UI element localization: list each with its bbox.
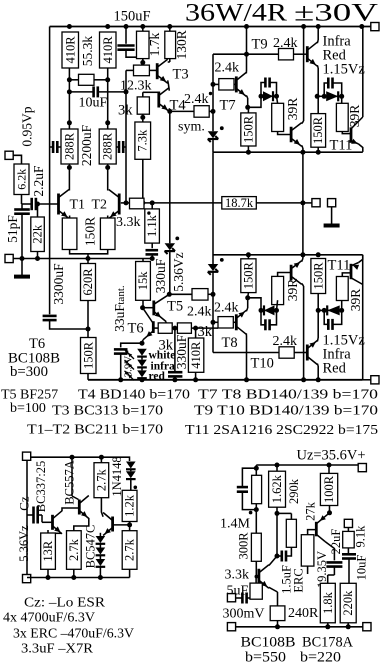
wire Cz bottom rail — [27, 577, 130, 579]
dot 3.9V rail — [118, 377, 123, 382]
wire 220k bottom — [347, 623, 349, 627]
transistor T6 emitter — [142, 331, 153, 343]
capacitor 1.5uF — [282, 551, 286, 562]
resistor 288R right — [99, 129, 116, 164]
label T11 upper — [330, 138, 353, 154]
dot BC178A emitter — [327, 510, 332, 515]
svg-text:3.3uF –X7R: 3.3uF –X7R — [21, 642, 94, 657]
wire bottom to terminal — [363, 379, 371, 381]
terminal 300mV — [227, 594, 235, 602]
svg-text:3x ERC –470uF/6.3V: 3x ERC –470uF/6.3V — [13, 627, 134, 642]
wire cap288R — [116, 146, 126, 148]
svg-text:Uz=35.6V+: Uz=35.6V+ — [297, 448, 366, 464]
wire 2.4k T9 right — [294, 53, 307, 55]
label T7 — [220, 98, 236, 114]
wire 6.2k to node — [21, 195, 23, 205]
svg-text:b=220: b=220 — [300, 650, 341, 662]
wire ground rail y258 — [9, 258, 152, 260]
wire BC178A emitter top — [329, 506, 331, 513]
marker dot zener upper — [220, 126, 224, 130]
resistor 410R right — [100, 32, 117, 68]
capacitor Cz — [34, 507, 38, 524]
capacitor 3300uF — [43, 316, 57, 320]
wire T7 emitter — [246, 95, 247, 107]
wire col108 down — [107, 80, 109, 123]
svg-text:36W/4R: 36W/4R — [185, 0, 287, 27]
dot rail2 150R T9 — [316, 150, 321, 155]
label 2.4k T7 — [215, 61, 240, 76]
wire 39R LR bottom — [341, 301, 343, 311]
dot 10uF left — [67, 89, 72, 94]
wire 150R T9 top — [317, 96, 319, 113]
dot 1.5uF node — [275, 554, 280, 559]
wire 51pF down — [21, 204, 23, 259]
resistor 3k b — [177, 323, 191, 333]
label b=220 — [300, 650, 341, 662]
wire d-ab — [130, 469, 132, 471]
wire 3300uF bottom — [50, 320, 88, 329]
dot network UL left — [259, 94, 264, 99]
transistor T10 — [307, 341, 317, 365]
label 5.36Vz cz — [17, 525, 31, 562]
transistor BC108B reg — [259, 565, 269, 589]
resistor 13R — [41, 533, 56, 569]
terminal Cz top — [23, 452, 31, 460]
dot T8 emitter node — [245, 295, 250, 300]
marker dot zener lower — [220, 258, 224, 262]
capacitor under 1.1k — [146, 250, 159, 254]
svg-text:6.2k: 6.2k — [15, 169, 29, 190]
wire bottom rail — [88, 379, 363, 381]
wire right column down — [362, 255, 364, 380]
label 290k — [287, 478, 301, 504]
wire zener to T5 node — [169, 252, 171, 295]
label BC178A — [302, 635, 354, 651]
label white — [149, 349, 176, 361]
led white — [125, 349, 147, 359]
dot IR LR mid — [322, 308, 327, 313]
resistor 2.7k c1 — [94, 463, 109, 498]
wire output column — [302, 152, 304, 255]
dot 410R1-55.3k — [67, 77, 72, 82]
terminal reg bottom left — [227, 623, 235, 631]
wire led2-3 — [141, 367, 143, 370]
wire 27k bottom — [307, 566, 309, 574]
dot rail3 150RT10 — [316, 252, 321, 257]
wire 150R to bottom rail — [87, 374, 89, 380]
wire speaker gnd — [331, 207, 333, 224]
wire colB down — [276, 514, 278, 557]
svg-text:5.36Vz: 5.36Vz — [17, 525, 31, 562]
wire colA bottom — [255, 504, 257, 534]
label 10uF — [79, 96, 108, 111]
wire 9.1k to 10uF — [347, 548, 349, 554]
svg-text:Cz: –Lo ESR: Cz: –Lo ESR — [24, 596, 106, 611]
svg-text:7.3k: 7.3k — [136, 129, 150, 152]
wire 1.1k top stub — [151, 203, 153, 209]
wire 2.7kc2 bottom — [73, 569, 75, 577]
terminal -30V bottom right — [371, 376, 379, 384]
resistor 7.3k — [135, 122, 151, 159]
label 9.1k — [354, 525, 368, 548]
wire 1.5uF left stub — [277, 555, 282, 557]
wire 39R UR to base — [342, 132, 351, 134]
transistor T5 emitter — [154, 312, 166, 324]
dot T6 emitter node — [140, 341, 145, 346]
svg-text:300R: 300R — [237, 532, 251, 560]
svg-text:ERC: ERC — [292, 568, 306, 592]
transistor T5 collector — [154, 294, 170, 304]
dot 410R rail — [193, 377, 198, 382]
svg-text:150R: 150R — [241, 261, 255, 289]
dot rail-410R1 — [67, 24, 72, 29]
dot rail OUL — [301, 24, 306, 29]
wire 130R top — [169, 27, 171, 32]
label 330uF mid — [153, 258, 168, 293]
svg-text:10uF: 10uF — [79, 96, 108, 111]
svg-text:b=550: b=550 — [245, 650, 286, 662]
capacitor 10uF reg — [342, 554, 356, 558]
resistor 2.7k c2 — [67, 531, 82, 570]
label T1 — [70, 198, 86, 213]
wire Cz cap stubs — [27, 515, 53, 522]
wire 150R T7 bottom — [247, 146, 249, 152]
dot Cz top 557 — [70, 455, 75, 460]
dot 1.7k-12.3k — [140, 60, 145, 65]
wire 18.7k right — [256, 202, 303, 204]
terminal input ground — [5, 254, 13, 262]
wire 130R bottom — [169, 59, 171, 62]
label 300mV — [223, 607, 265, 622]
terminal +30V top right — [371, 23, 379, 31]
wire 410R2 bottom — [107, 68, 109, 80]
wire 150R T8 bottom — [247, 293, 250, 298]
wire rail2 — [213, 151, 363, 153]
label BC337:25 — [34, 461, 48, 512]
svg-text:4x 4700uF/6.3V: 4x 4700uF/6.3V — [3, 611, 95, 626]
wire 2.4k T10 right — [294, 352, 306, 354]
svg-text:288R: 288R — [101, 132, 115, 160]
transistor BC337 — [53, 511, 63, 534]
label 0.95Vp — [20, 106, 35, 146]
wire 55.3k left — [69, 79, 78, 81]
wire T6 base — [153, 327, 158, 329]
resistor 150R T10 — [311, 259, 326, 294]
resistor 22k — [31, 217, 45, 252]
svg-text:13R: 13R — [41, 540, 55, 562]
note X7R — [21, 642, 94, 657]
label BC108B annot — [8, 351, 60, 367]
label BC108B — [241, 635, 296, 651]
transistor T11 lower — [351, 263, 363, 285]
svg-text:T6: T6 — [128, 321, 144, 337]
wire 10uF down — [348, 559, 350, 584]
dot rail T11u — [359, 24, 364, 29]
wire T5 base — [143, 307, 153, 309]
capacitor colA — [237, 468, 256, 509]
dot rail4 T10 — [316, 377, 321, 382]
dot T9row-col247 — [244, 52, 249, 57]
wire 15k bottom — [142, 300, 144, 307]
wire 330uF stem — [174, 328, 176, 380]
wire 150R T10 bottom — [317, 294, 319, 311]
label 10uF reg — [355, 555, 369, 581]
svg-text:2.7k: 2.7k — [94, 469, 108, 492]
dot 3k mid node — [172, 326, 177, 331]
resistor 55.3k — [79, 74, 95, 85]
dot rail2 150R T7 — [246, 150, 251, 155]
dot T5 collector node — [167, 292, 172, 297]
resistor 410R out — [188, 338, 203, 372]
svg-text:12.3k: 12.3k — [120, 79, 152, 94]
svg-text:22uF: 22uF — [329, 529, 343, 555]
terminal speaker + — [312, 199, 320, 207]
resistor 39R LL — [272, 276, 284, 304]
svg-text:2.4k: 2.4k — [184, 92, 209, 107]
label BC557A — [63, 460, 77, 504]
wire OUL emitter — [302, 145, 303, 152]
wire 620R bottom — [87, 301, 89, 330]
label 51pF — [5, 215, 20, 243]
dot 13R rail — [46, 575, 51, 580]
zener 5.36Vz mid — [165, 243, 176, 254]
wire T1 collector — [68, 168, 70, 191]
label 12.3k — [120, 79, 152, 94]
wire OUL collector — [302, 27, 304, 124]
label T11 lower — [328, 258, 351, 274]
wire T2 base — [121, 202, 130, 204]
label 55.3k — [80, 36, 95, 67]
dot sym-col213 — [211, 109, 216, 114]
dot rail T9c — [316, 24, 321, 29]
zener upper bias — [208, 131, 219, 142]
wire BC557 cvert — [72, 496, 79, 500]
dot colA bottom — [254, 507, 259, 512]
wire 240R bottom — [277, 621, 279, 627]
capacitor 2.2uF — [32, 198, 36, 210]
diode network LL — [261, 305, 277, 315]
label 2.4k T9 — [273, 36, 298, 51]
wire 39R UR top — [341, 96, 343, 103]
wire T10 base row — [213, 352, 279, 354]
dot IR UL mid — [322, 94, 327, 99]
diode chain a — [96, 536, 106, 544]
svg-text:3.3k: 3.3k — [116, 215, 141, 230]
resistor 9.1k — [343, 531, 355, 548]
svg-text:33uF: 33uF — [112, 304, 127, 332]
svg-text:T11: T11 — [330, 138, 353, 154]
label ERC — [292, 568, 306, 592]
svg-text:±30V: ±30V — [294, 0, 378, 27]
label T4 — [170, 98, 187, 114]
wire OLL collector — [302, 283, 304, 380]
svg-text:1.15Vz: 1.15Vz — [323, 62, 366, 78]
svg-text:150R: 150R — [311, 116, 325, 144]
note Cz — [24, 596, 106, 611]
capacitor IR upper — [324, 78, 342, 97]
svg-text:1.1k: 1.1k — [145, 214, 159, 237]
label 130R — [174, 30, 189, 59]
wire T10 collector — [316, 364, 319, 380]
svg-text:sym.: sym. — [178, 120, 205, 135]
dot rail-1.7k — [140, 24, 145, 29]
marker dot zener mid — [175, 237, 179, 241]
wire col213 mid — [212, 152, 214, 264]
led infra — [125, 360, 147, 370]
label 300R — [237, 532, 251, 560]
resistor 27k — [301, 535, 314, 566]
marker dot 1.2k — [134, 486, 138, 490]
wire T4 base — [143, 91, 158, 93]
svg-text:150R: 150R — [81, 341, 95, 369]
resistor 410R left — [62, 32, 79, 68]
resistor 2.7k c3 — [122, 531, 137, 570]
dot IR LR left — [316, 308, 321, 313]
wire 13R bottom — [47, 569, 49, 577]
svg-text:150uF: 150uF — [114, 9, 151, 25]
resistor 6.2k — [14, 164, 29, 195]
wire OLL emitter — [302, 255, 303, 262]
wire BC108B collector — [269, 556, 277, 566]
wire 3k bottom — [142, 114, 144, 122]
wire led3 rail — [141, 378, 143, 380]
marker dot sym — [209, 92, 212, 95]
dot 288R2 top — [105, 120, 110, 125]
wire 290k top — [290, 513, 292, 519]
svg-text:T7: T7 — [220, 98, 236, 114]
dot 1.8k rail — [325, 624, 330, 629]
transistor T11 upper — [351, 117, 363, 144]
wire 2.7k c1 bottom — [101, 498, 103, 517]
wire colA top — [255, 465, 257, 475]
svg-text:100R: 100R — [322, 475, 336, 503]
dot 288R1 bottom — [67, 165, 72, 170]
svg-text:T2: T2 — [92, 198, 108, 213]
wire 39R UL to base — [278, 132, 291, 135]
wire T9 collector — [316, 27, 319, 44]
svg-text:0.95Vp: 0.95Vp — [20, 106, 35, 146]
svg-text:220k: 220k — [341, 590, 355, 616]
resistor 3k mid — [137, 97, 149, 114]
dot rail2 OUL — [300, 150, 305, 155]
wire 27k top — [308, 530, 316, 535]
label 240R — [288, 606, 319, 621]
dot 7.3k-fb — [140, 200, 145, 205]
svg-text:5.36Vz: 5.36Vz — [171, 252, 186, 291]
resistor 15k — [136, 262, 151, 301]
wire 5uF stubs — [236, 597, 250, 599]
wire BC178A collector — [325, 542, 334, 561]
svg-text:330uF: 330uF — [174, 334, 189, 369]
dot output 18.7k — [300, 200, 305, 205]
transistor T8 — [236, 310, 246, 334]
label 39R UR — [347, 105, 362, 128]
resistor 39R UL — [272, 103, 284, 131]
dot 2.4k T5 col213 — [211, 292, 216, 297]
wire T1 emitter — [69, 216, 71, 219]
svg-text:T11: T11 — [328, 258, 351, 274]
svg-text:T4 BD140 b=170: T4 BD140 b=170 — [78, 388, 190, 403]
svg-text:T11 2SA1216 2SC2922 b=175: T11 2SA1216 2SC2922 b=175 — [185, 423, 378, 438]
wire 288R2 stubs — [107, 123, 109, 168]
label 39R UL — [285, 98, 300, 121]
svg-text:15k: 15k — [136, 271, 150, 291]
svg-text:T5: T5 — [167, 299, 183, 315]
capacitor network LL — [261, 310, 277, 330]
svg-text:2.4k: 2.4k — [215, 61, 240, 76]
resistor 300R — [251, 533, 261, 561]
table row3 right — [185, 423, 378, 438]
wire 300R bottom — [255, 561, 257, 576]
svg-text:2.4k: 2.4k — [273, 36, 298, 51]
wire 150uF to 1.7k node — [126, 50, 143, 63]
svg-text:3.3k: 3.3k — [225, 568, 250, 583]
svg-text:1.2k: 1.2k — [123, 494, 137, 517]
wire top +30V rail — [50, 26, 371, 28]
label Red lower — [323, 361, 347, 377]
dot 620R-3300uF — [86, 327, 91, 332]
wire 12.3k right — [149, 69, 156, 71]
resistor 1.1k — [145, 209, 160, 243]
transistor T4 — [159, 88, 170, 112]
svg-text:19.35V: 19.35V — [315, 551, 329, 588]
wire cap288L — [50, 146, 61, 148]
dot fb gnd — [150, 256, 155, 261]
wire 1.7k bottom — [142, 59, 144, 66]
wire 9.1k top — [347, 528, 349, 532]
svg-text:BC108B: BC108B — [241, 635, 296, 651]
wire 150R T8 top — [247, 255, 249, 259]
transistor T2 — [109, 190, 120, 219]
svg-text:55.3k: 55.3k — [80, 36, 95, 67]
resistor 150R T7 — [241, 113, 256, 146]
ground speaker — [324, 224, 340, 228]
wire node to T1 base — [22, 203, 59, 205]
resistor 100R — [320, 473, 337, 505]
wire 22k bottom — [37, 252, 39, 259]
svg-text:27k: 27k — [304, 501, 318, 521]
dot rail-150uF — [124, 24, 129, 29]
label 33uF tant — [112, 285, 127, 332]
diode network UL — [261, 91, 277, 101]
table row2 left — [10, 401, 46, 416]
wire 1.1k bottom — [151, 243, 153, 248]
label Uz — [297, 448, 366, 464]
label T9 — [252, 37, 268, 53]
wire 3.9V branch — [121, 343, 142, 347]
svg-text:b=100: b=100 — [10, 401, 46, 416]
svg-text:tant.: tant. — [115, 285, 127, 304]
diode IR upper — [324, 91, 342, 101]
transistor output upper-left — [291, 123, 302, 147]
wire 3.3k top — [256, 577, 258, 584]
wire T2 collector — [107, 168, 109, 191]
dot node513 — [275, 511, 280, 516]
label 39R LR — [348, 289, 363, 312]
label red — [149, 370, 166, 382]
dot led rail — [140, 377, 145, 382]
wire 410R out stubs — [195, 328, 197, 380]
svg-text:150R: 150R — [83, 217, 98, 246]
wire BC337 base — [26, 460, 28, 574]
svg-text:410R: 410R — [63, 36, 77, 64]
wire T2 emitter — [107, 216, 109, 219]
label infra — [151, 360, 176, 372]
ground symbol input — [14, 275, 30, 279]
svg-text:330uF: 330uF — [153, 258, 168, 293]
svg-text:300mV: 300mV — [223, 607, 265, 622]
label 2.4k T8 — [214, 301, 239, 316]
